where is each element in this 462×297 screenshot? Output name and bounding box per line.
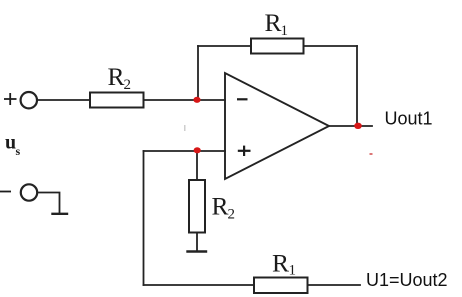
svg-text:1: 1 — [281, 23, 289, 39]
svg-text:R: R — [108, 62, 125, 91]
svg-text:R: R — [212, 192, 229, 221]
svg-text:u: u — [5, 132, 16, 154]
terminal minus circle — [21, 184, 37, 200]
resistor R2 vertical box — [189, 180, 205, 233]
resistor R1 feedback box — [251, 39, 304, 54]
wire feedback top left — [198, 45, 251, 47]
wire R2 vertical bottom — [196, 233, 198, 252]
wire input right — [144, 99, 226, 101]
node inverting input red dot — [193, 97, 200, 103]
wire bottom right — [308, 284, 361, 286]
wire node to R2 vertical top — [196, 151, 198, 180]
terminal plus circle — [21, 92, 37, 108]
svg-text:R: R — [272, 249, 289, 278]
terminal plus sign — [4, 93, 17, 105]
svg-text:U1=Uout2: U1=Uout2 — [366, 270, 448, 290]
resistor R1 bottom box — [254, 278, 308, 294]
wire bottom left — [144, 284, 255, 286]
artifact faint dot — [184, 125, 186, 131]
node output red dot — [354, 123, 362, 129]
ground bar under R2 — [188, 250, 207, 252]
wire feedback left vertical — [197, 46, 199, 100]
svg-text:2: 2 — [124, 77, 132, 93]
resistor R2 input box — [90, 93, 144, 108]
wire feedback top right — [304, 45, 358, 47]
ground bar minus terminal — [53, 213, 68, 215]
op-amp plus sign — [238, 146, 251, 156]
op-amp U1 triangle — [225, 73, 329, 179]
terminal minus sign — [0, 191, 11, 193]
svg-text:Uout1: Uout1 — [385, 109, 433, 129]
wire noninverting input — [144, 150, 226, 152]
wire feedback right vertical — [356, 46, 358, 126]
wire output — [329, 125, 372, 127]
svg-text:R: R — [265, 8, 282, 37]
node noninverting input red dot — [194, 147, 201, 153]
op-amp minus sign — [237, 98, 248, 100]
svg-text:s: s — [16, 144, 21, 158]
wire input left — [37, 99, 90, 101]
artifact red speck — [370, 153, 373, 155]
wire minus terminal — [38, 193, 60, 214]
svg-text:1: 1 — [289, 263, 297, 279]
svg-text:2: 2 — [228, 207, 236, 223]
wire left long vertical — [143, 151, 145, 285]
